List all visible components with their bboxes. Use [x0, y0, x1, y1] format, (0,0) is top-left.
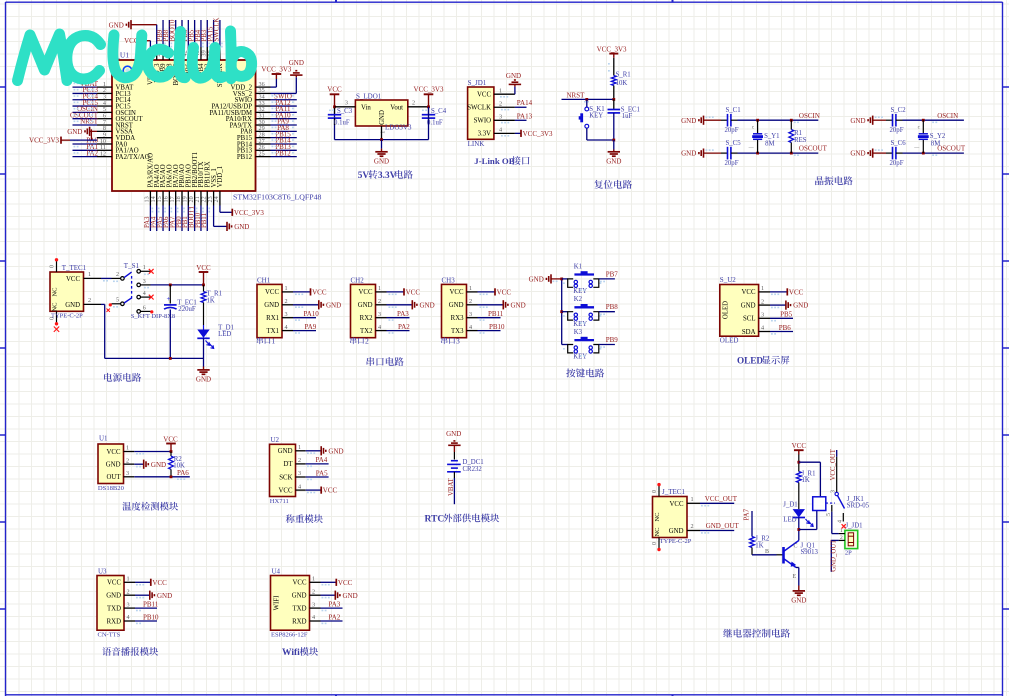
svg-text:PB11: PB11: [488, 310, 504, 318]
power VCC at ldo input: [330, 93, 340, 95]
svg-text:GND: GND: [358, 302, 373, 309]
svg-text:1: 1: [378, 285, 381, 292]
svg-text:3: 3: [127, 601, 130, 608]
svg-text:VCC: VCC: [312, 288, 327, 296]
svg-text:GND: GND: [669, 528, 684, 535]
mcu top pins 48-37: [149, 47, 151, 60]
svg-text:S_KFT DIP-8X8: S_KFT DIP-8X8: [131, 313, 175, 320]
MCUclub logo: [18, 31, 252, 81]
capacitor S_C1: [721, 119, 728, 121]
svg-text:SDA: SDA: [742, 329, 756, 336]
svg-text:1: 1: [272, 337, 276, 346]
svg-text:Vout: Vout: [390, 104, 403, 111]
svg-text:GND: GND: [850, 117, 865, 125]
wire: [134, 451, 171, 453]
svg-text:5V: 5V: [358, 171, 370, 181]
wire OSCIN row: [738, 119, 819, 121]
svg-text:PB11: PB11: [143, 600, 159, 608]
power VCC: [387, 291, 405, 293]
power VCC at oled: [770, 291, 787, 293]
ground: [321, 594, 336, 596]
wire: [798, 518, 800, 541]
svg-text:NC: NC: [654, 512, 661, 521]
wire bottom rail: [335, 139, 429, 141]
svg-text:8M: 8M: [765, 140, 774, 147]
junction: [170, 475, 173, 478]
mcu U1 body: [112, 60, 256, 191]
svg-text:VCC: VCC: [279, 487, 293, 494]
svg-text:6: 6: [143, 305, 146, 311]
svg-text:B: B: [765, 549, 769, 555]
svg-text:4: 4: [469, 324, 472, 331]
svg-text:GND: GND: [850, 150, 865, 158]
svg-text:TYPE-C-2P: TYPE-C-2P: [51, 313, 83, 320]
svg-text:GND: GND: [234, 223, 249, 231]
svg-text:VCC: VCC: [359, 289, 373, 296]
ground: [872, 149, 874, 158]
led J_D1: [793, 509, 805, 517]
capacitor S_EC1: [613, 99, 615, 109]
junction: [380, 138, 383, 141]
svg-text:OSCIN: OSCIN: [799, 112, 820, 120]
svg-text:S_C4: S_C4: [431, 108, 447, 115]
svg-text:VCC: VCC: [477, 92, 491, 99]
ground at reset: [613, 140, 615, 150]
svg-text:PB10: PB10: [489, 323, 505, 331]
svg-text:GND: GND: [196, 375, 211, 383]
wire: [562, 311, 568, 313]
svg-text:PB9: PB9: [606, 336, 619, 344]
svg-text:2: 2: [499, 100, 502, 107]
svg-text:CH1: CH1: [257, 276, 271, 284]
power VCC_3V3 to mcu pin9 VDDA: [60, 137, 62, 144]
svg-text:GND: GND: [106, 593, 121, 600]
junction: [202, 284, 205, 287]
svg-text:10K: 10K: [616, 80, 628, 87]
svg-text:S_C1: S_C1: [726, 107, 741, 114]
wire: [613, 58, 615, 76]
wire: [873, 119, 886, 121]
svg-text:220uF: 220uF: [178, 306, 196, 313]
resistor R1: [790, 120, 792, 129]
svg-text:12: 12: [100, 150, 106, 157]
wire: [798, 568, 800, 586]
connector CH2 body: [351, 284, 376, 337]
svg-text:SWCLK: SWCLK: [214, 18, 221, 42]
svg-text:4: 4: [761, 325, 764, 332]
svg-text:GND: GND: [420, 301, 435, 309]
svg-text:CN-TTS: CN-TTS: [98, 631, 121, 638]
svg-text:LINK: LINK: [468, 140, 485, 148]
power VCC_3V3 at mcu pin24: [219, 206, 221, 213]
led T_D1: [197, 330, 209, 338]
svg-text:GND: GND: [529, 276, 544, 284]
svg-text:1: 1: [88, 271, 91, 278]
ground: [387, 304, 413, 306]
svg-text:K2: K2: [574, 296, 583, 303]
sheet border: [5, 2, 7, 696]
svg-text:25: 25: [259, 150, 265, 157]
svg-text:S_JD1: S_JD1: [468, 79, 487, 87]
svg-text:NC: NC: [52, 302, 59, 311]
connector U4 body: [271, 576, 310, 631]
sub title 3: [441, 337, 455, 344]
svg-text:1: 1: [691, 496, 694, 503]
resistor J_R1: [796, 472, 801, 483]
wire: [832, 533, 839, 535]
battery D_DC1: [451, 460, 458, 462]
wire: [831, 512, 833, 534]
svg-text:2: 2: [412, 99, 415, 106]
svg-text:20pF: 20pF: [890, 127, 904, 134]
title voice module: [102, 647, 158, 656]
svg-text:GND: GND: [374, 157, 389, 165]
svg-text:1: 1: [285, 285, 288, 292]
wire: [453, 472, 455, 478]
svg-text:2: 2: [116, 272, 119, 278]
mcu right pins 36-25: [256, 86, 271, 88]
svg-text:GND: GND: [681, 117, 696, 125]
svg-text:TX3: TX3: [451, 328, 464, 335]
svg-text:PB11: PB11: [201, 213, 208, 228]
svg-text:4: 4: [499, 127, 502, 134]
svg-text:T_S1: T_S1: [124, 262, 140, 270]
mcu left pins 1-12: [97, 86, 112, 88]
junction: [560, 310, 563, 313]
net label PB10: [478, 330, 501, 332]
title weighing module: [286, 514, 323, 523]
svg-text:TXD: TXD: [107, 605, 121, 612]
svg-text:PB5: PB5: [780, 311, 793, 319]
svg-text:PA3: PA3: [397, 310, 409, 318]
switch T_S1: [112, 277, 121, 279]
svg-text:GND: GND: [328, 447, 343, 455]
svg-text:PB8: PB8: [606, 303, 619, 311]
svg-text:VCC: VCC: [152, 579, 167, 587]
svg-text:PA2/TX/AO: PA2/TX/AO: [116, 154, 150, 161]
net label PA13: [515, 119, 527, 121]
svg-text:PA2: PA2: [329, 613, 341, 621]
svg-text:2: 2: [365, 337, 369, 346]
capacitor S_C4: [428, 108, 430, 115]
connector T_TEC1 pin 1: [84, 277, 102, 279]
svg-text:PA3: PA3: [329, 600, 341, 608]
svg-text:HX711: HX711: [270, 498, 289, 505]
svg-text:WIFI: WIFI: [274, 595, 281, 610]
svg-text:4: 4: [298, 483, 301, 490]
net label PA2: [321, 620, 343, 622]
svg-text:2: 2: [691, 523, 694, 530]
svg-text:GND: GND: [157, 592, 172, 600]
svg-text:S_C3: S_C3: [337, 108, 353, 115]
svg-text:NRST: NRST: [567, 91, 586, 99]
svg-text:RX3: RX3: [451, 315, 464, 322]
net label PA3: [387, 317, 410, 319]
regulator S_LDO1 body: [355, 100, 407, 126]
junction: [797, 528, 800, 531]
svg-text:PA5: PA5: [316, 469, 328, 477]
svg-text:D_DC1: D_DC1: [463, 459, 484, 466]
power VCC: [135, 581, 151, 583]
ground at ldo: [381, 140, 383, 149]
svg-text:VCC: VCC: [163, 436, 178, 444]
connector S_U2 body: [720, 285, 759, 337]
svg-text:VCC_3V3: VCC_3V3: [261, 65, 291, 73]
svg-text:GND: GND: [264, 302, 279, 309]
svg-text:1: 1: [499, 87, 502, 94]
svg-text:S_U2: S_U2: [720, 276, 736, 284]
svg-text:20pF: 20pF: [725, 160, 739, 167]
svg-text:CR232: CR232: [463, 466, 483, 473]
connector J_TEC1 pin 1: [687, 502, 700, 504]
svg-text:3: 3: [761, 312, 764, 319]
svg-text:GND: GND: [292, 593, 307, 600]
net label PB11: [135, 607, 157, 609]
svg-text:GND_OUT: GND_OUT: [706, 522, 740, 530]
svg-text:S_R1: S_R1: [616, 72, 631, 79]
svg-text:VCC_3V3: VCC_3V3: [234, 209, 264, 217]
svg-text:VCC: VCC: [323, 487, 338, 495]
svg-text:+: +: [167, 295, 171, 303]
connector J_TEC1 pin 2: [687, 530, 700, 532]
junction: [170, 450, 173, 453]
svg-text:LDO3V3: LDO3V3: [385, 124, 412, 132]
key S_K1: [586, 99, 588, 107]
svg-text:VCC_OUT: VCC_OUT: [705, 495, 738, 503]
svg-text:U2: U2: [271, 436, 280, 444]
ground at mcu pin8 VSSA: [89, 127, 91, 136]
key K3: [568, 345, 574, 353]
power VCC_3V3 at jd1 pin4: [515, 132, 521, 134]
net label PB5: [770, 317, 793, 319]
power VCC_3V3 at ldo output: [424, 93, 434, 95]
svg-text:5: 5: [826, 513, 832, 516]
wire: [101, 277, 112, 279]
regulator pin 1 gnd: [381, 126, 383, 140]
svg-text:TX1: TX1: [267, 328, 279, 335]
ground at mcu pin23: [213, 206, 215, 227]
title relay control circuit: [723, 629, 790, 638]
wire: [704, 152, 722, 154]
svg-text:VCC: VCC: [670, 501, 684, 508]
svg-text:GND: GND: [681, 150, 696, 158]
svg-text:1K: 1K: [802, 477, 810, 484]
svg-text:PB7: PB7: [606, 270, 619, 278]
svg-text:PA4: PA4: [316, 456, 328, 464]
svg-text:PB10: PB10: [143, 613, 159, 621]
key K2: [568, 312, 574, 320]
svg-text:VCC_3V3: VCC_3V3: [523, 130, 553, 138]
junction: [169, 357, 172, 360]
svg-text:20pF: 20pF: [725, 127, 739, 134]
svg-text:1: 1: [298, 444, 301, 451]
wire: [134, 476, 190, 478]
svg-text:CH2: CH2: [351, 276, 365, 284]
svg-text:T_TEC1: T_TEC1: [62, 264, 87, 272]
ground: [703, 149, 705, 158]
mcu bottom pins 13-24: [149, 191, 151, 206]
svg-text:GND_OUT: GND_OUT: [830, 539, 837, 572]
svg-text:3: 3: [298, 470, 301, 477]
sub title 2: [350, 337, 364, 344]
svg-text:2: 2: [88, 297, 91, 304]
svg-text:24: 24: [213, 196, 220, 202]
title power circuit: [104, 373, 141, 382]
ground at U1 pin2: [134, 463, 143, 465]
ground: [703, 116, 705, 125]
net label PB6: [770, 331, 793, 333]
svg-text:1: 1: [126, 445, 129, 452]
svg-text:3: 3: [469, 311, 472, 318]
title crystal circuit: [815, 176, 852, 185]
svg-text:1: 1: [761, 285, 764, 292]
svg-text:VBAT: VBAT: [448, 477, 455, 496]
svg-text:PA6: PA6: [177, 469, 189, 477]
svg-text:VCC: VCC: [792, 442, 807, 450]
svg-text:1uF: 1uF: [622, 113, 633, 120]
svg-text:1K: 1K: [755, 543, 763, 550]
title serial circuit: [367, 357, 404, 366]
svg-text:GND: GND: [106, 461, 121, 468]
key K1: [568, 279, 574, 287]
svg-text:CH3: CH3: [442, 276, 456, 284]
title reset circuit: [594, 180, 632, 189]
svg-text:3: 3: [143, 279, 146, 285]
resistor R2: [170, 452, 172, 457]
capacitor S_C2: [886, 119, 893, 121]
ground: [478, 304, 504, 306]
ground relay: [798, 586, 800, 591]
power VCC: [478, 291, 496, 293]
connector T_TEC1 body: [50, 272, 84, 311]
svg-text:VCC: VCC: [497, 288, 512, 296]
svg-text:KEY: KEY: [573, 321, 587, 328]
svg-text:J_R2: J_R2: [755, 536, 770, 543]
svg-text:3: 3: [285, 311, 288, 318]
junction: [169, 284, 172, 287]
svg-text:U4: U4: [272, 567, 281, 575]
svg-text:0: 0: [50, 265, 56, 268]
wire: [562, 278, 568, 280]
svg-text:PB6: PB6: [779, 324, 792, 332]
title keys circuit: [566, 368, 604, 377]
svg-text:5: 5: [116, 298, 119, 304]
svg-text:2: 2: [285, 298, 288, 305]
regulator pin 3: [335, 106, 356, 108]
svg-text:2: 2: [761, 298, 764, 305]
connector S_JD1 body: [468, 87, 494, 139]
svg-text:K1: K1: [574, 263, 582, 270]
svg-text:TX2: TX2: [360, 328, 373, 335]
wire relay coil top: [799, 461, 821, 463]
junction: [756, 119, 759, 122]
svg-text:2: 2: [298, 457, 301, 464]
mcu left net wires and labels: [73, 86, 98, 88]
connector U3 body: [97, 576, 124, 631]
svg-text:SCK: SCK: [279, 474, 292, 481]
svg-text:J_TEC1: J_TEC1: [662, 488, 685, 496]
svg-text:—: —: [748, 146, 755, 151]
svg-text:SRD-05: SRD-05: [847, 503, 870, 510]
svg-text:PA14: PA14: [517, 99, 533, 107]
svg-text:4: 4: [312, 614, 315, 621]
svg-text:U3: U3: [98, 567, 107, 575]
svg-text:1: 1: [469, 285, 472, 292]
svg-text:3: 3: [456, 337, 460, 346]
svg-text:VCC: VCC: [789, 288, 804, 296]
svg-text:2: 2: [378, 298, 381, 305]
svg-text:3: 3: [345, 99, 348, 106]
wire OSCIN row: [903, 119, 964, 121]
wire: [798, 455, 800, 472]
ground: [135, 594, 150, 596]
mcu pin1 indicator circle: [123, 66, 132, 75]
svg-text:—: —: [913, 146, 920, 151]
title temperature module: [122, 502, 178, 511]
svg-text:VCC_3V3: VCC_3V3: [29, 137, 59, 145]
svg-text:4: 4: [837, 520, 843, 523]
mcu right net wires and labels: [271, 99, 297, 101]
svg-text:E: E: [793, 574, 797, 580]
junction: [612, 139, 615, 142]
svg-text:STM32F103C8T6_LQFP48: STM32F103C8T6_LQFP48: [233, 193, 321, 202]
wire: [704, 119, 722, 121]
net label PA10: [293, 317, 316, 319]
wire: [613, 86, 615, 100]
svg-text:J_D1: J_D1: [783, 502, 797, 509]
net label PB7: [599, 278, 615, 280]
svg-text:GND: GND: [791, 596, 806, 604]
power VCC: [293, 291, 311, 293]
svg-text:2: 2: [312, 588, 315, 595]
svg-text:RX2: RX2: [360, 315, 373, 322]
junction: [790, 152, 793, 155]
sheet zone ticks: [0, 86, 6, 88]
wire relay coil bottom: [799, 529, 817, 531]
svg-text:OSCOUT: OSCOUT: [799, 145, 828, 153]
svg-text:OLED: OLED: [723, 301, 730, 319]
svg-text:DT: DT: [283, 461, 293, 468]
svg-text:KEY: KEY: [573, 354, 587, 361]
svg-text:2: 2: [127, 588, 130, 595]
svg-text:GND: GND: [741, 302, 756, 309]
wire: [798, 483, 800, 510]
svg-text:RTC: RTC: [425, 515, 445, 525]
ground at mcu pin47: [130, 20, 132, 29]
svg-text:RX1: RX1: [266, 315, 279, 322]
net label PB8: [599, 311, 615, 313]
svg-text:VCC: VCC: [265, 289, 279, 296]
svg-text:PB12: PB12: [275, 149, 291, 157]
svg-text:GND: GND: [109, 21, 124, 29]
ground at oled: [770, 304, 786, 306]
svg-text:VCC_3V3: VCC_3V3: [414, 86, 444, 94]
svg-text:S_Y2: S_Y2: [930, 133, 946, 140]
net label PB10: [135, 620, 157, 622]
svg-text:OSCOUT: OSCOUT: [937, 145, 966, 153]
svg-text:GND: GND: [289, 59, 304, 67]
svg-text:VCC: VCC: [107, 580, 121, 587]
ground power circuit: [203, 358, 205, 366]
svg-text:2P: 2P: [845, 550, 852, 557]
junction: [333, 105, 336, 108]
junction: [922, 119, 925, 122]
net label GND_OUT: [700, 530, 734, 532]
svg-text:OLED: OLED: [737, 356, 763, 366]
svg-text:VCC_OUT: VCC_OUT: [830, 448, 837, 480]
connector CH1 body: [257, 284, 282, 337]
svg-text:PA7: PA7: [744, 508, 751, 520]
